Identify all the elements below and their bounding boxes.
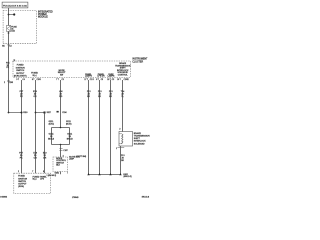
svg-text:2: 2 bbox=[119, 128, 120, 130]
lower left module box (dashed) bbox=[14, 173, 51, 193]
svg-text:8: 8 bbox=[43, 171, 44, 173]
wire 1 from cluster bbox=[21, 80, 23, 173]
pin label at IPM exit bbox=[2, 45, 11, 47]
svg-text:8W-40-8: 8W-40-8 bbox=[142, 197, 149, 199]
svg-text:9 T: 9 T bbox=[16, 79, 19, 81]
lower box interior label col2 bbox=[33, 176, 40, 180]
instrument cluster label bbox=[132, 59, 148, 64]
BTSI bottom pin connector bbox=[120, 146, 122, 175]
svg-text:C4: C4 bbox=[22, 79, 24, 81]
wire 3 T split bbox=[52, 127, 70, 129]
svg-text:OUTPUT: OUTPUT bbox=[16, 73, 25, 75]
svg-text:17904B: 17904B bbox=[72, 197, 79, 199]
svg-text:MODULE: MODULE bbox=[38, 17, 48, 19]
svg-text:OR: OR bbox=[33, 96, 37, 98]
box right label bbox=[69, 156, 80, 160]
connector C205 on fuse wire bbox=[4, 81, 13, 84]
svg-text:IGNITION: IGNITION bbox=[16, 67, 25, 69]
svg-text:S110: S110 bbox=[23, 112, 27, 114]
node ground bus junction wire5 bbox=[98, 173, 100, 175]
wire to connector bbox=[60, 145, 62, 158]
headlamp leveling box (dashed) bbox=[53, 157, 68, 172]
integrated power module label bbox=[38, 10, 53, 18]
svg-text:OR: OR bbox=[43, 157, 47, 159]
wire 7 from cluster bbox=[122, 80, 124, 132]
svg-text:M1: M1 bbox=[2, 45, 4, 47]
wire 2b branch from splice bbox=[44, 113, 46, 174]
svg-text:7: 7 bbox=[32, 171, 33, 173]
svg-text:C107: C107 bbox=[63, 150, 67, 152]
svg-text:(RUN): (RUN) bbox=[18, 186, 24, 188]
svg-text:PK: PK bbox=[20, 157, 23, 159]
splice S327 bbox=[35, 112, 37, 114]
branch right bbox=[69, 128, 71, 145]
split label left bbox=[49, 121, 55, 125]
svg-text:(EXC): (EXC) bbox=[49, 123, 55, 125]
cluster pin function label col8 bbox=[115, 62, 131, 77]
wire 3 label bbox=[59, 91, 63, 98]
svg-text:OR: OR bbox=[34, 157, 38, 159]
node stub end dot bbox=[13, 13, 15, 15]
svg-text:8 T: 8 T bbox=[32, 79, 35, 81]
fuse bottom terminal bbox=[8, 32, 10, 34]
svg-text:BK/LB: BK/LB bbox=[67, 138, 74, 140]
instrument cluster box (dashed) bbox=[13, 61, 131, 77]
cluster pin function label col5 bbox=[97, 73, 105, 78]
integrated power module box (dashed) bbox=[3, 10, 36, 43]
svg-text:2: 2 bbox=[4, 82, 5, 84]
svg-text:FUSED: FUSED bbox=[17, 65, 24, 67]
svg-text:CONTROL: CONTROL bbox=[118, 75, 129, 77]
cluster pin function label col1 bbox=[14, 65, 27, 78]
svg-text:1: 1 bbox=[116, 148, 117, 150]
wire 7 label bbox=[121, 91, 125, 98]
branch rejoin bbox=[52, 144, 70, 146]
branch left label bbox=[48, 134, 55, 141]
svg-text:C3: C3 bbox=[62, 79, 64, 81]
svg-text:PK: PK bbox=[6, 67, 9, 69]
svg-text:B(+): B(+) bbox=[33, 75, 37, 77]
wire 3 from cluster bbox=[60, 80, 62, 128]
svg-text:C2 (P7 884): C2 (P7 884) bbox=[76, 156, 86, 158]
lower box interior label col3 bbox=[40, 175, 47, 180]
wire 2 from cluster bbox=[35, 80, 37, 173]
cluster pin function label col6 bbox=[108, 73, 115, 78]
wire 1 label bbox=[20, 91, 24, 98]
BTSI solenoid box bbox=[119, 132, 133, 147]
svg-text:3: 3 bbox=[63, 156, 64, 158]
split label right bbox=[66, 121, 72, 125]
svg-text:7 T: 7 T bbox=[56, 79, 59, 81]
svg-text:C2: C2 bbox=[9, 45, 11, 47]
svg-text:BK/LB: BK/LB bbox=[48, 138, 55, 140]
fuse F31 value label bbox=[11, 26, 17, 32]
wire label F35 bbox=[6, 62, 10, 69]
svg-text:BK: BK bbox=[87, 96, 90, 98]
fuse F31 bbox=[7, 25, 11, 31]
ground bus bbox=[89, 174, 121, 176]
wire 3 arrow feed bbox=[57, 111, 59, 113]
svg-text:FUS.BLOCK 0.04 0.0A: FUS.BLOCK 0.04 0.0A bbox=[3, 4, 27, 7]
svg-text:LPS DR: LPS DR bbox=[97, 76, 105, 78]
svg-text:B(+): B(+) bbox=[33, 179, 37, 181]
svg-text:2: 2 bbox=[18, 171, 19, 173]
svg-text:YL: YL bbox=[121, 96, 124, 98]
svg-text:SOLENOID: SOLENOID bbox=[134, 143, 145, 145]
svg-text:(8W-15-2): (8W-15-2) bbox=[124, 176, 132, 178]
svg-text:BK: BK bbox=[121, 160, 124, 162]
svg-text:LAMPS: LAMPS bbox=[108, 75, 115, 78]
svg-text:(BUX): (BUX) bbox=[66, 123, 72, 125]
svg-text:1 (8W-40-2): 1 (8W-40-2) bbox=[47, 175, 57, 177]
branch right label bbox=[67, 134, 74, 141]
wire from fuse down to splice bbox=[8, 32, 10, 113]
wire 2b label bbox=[43, 153, 48, 160]
wire 1 lower label bbox=[19, 153, 23, 160]
node ground bus junction wire7 bbox=[119, 173, 121, 175]
svg-text:BK: BK bbox=[98, 96, 101, 98]
wire 2 lower label bbox=[33, 153, 38, 160]
BTSI ground wire label bbox=[121, 155, 125, 162]
svg-text:0 84903: 0 84903 bbox=[0, 197, 7, 199]
corner continuation arrow bbox=[12, 60, 15, 63]
svg-text:C134: C134 bbox=[62, 112, 66, 114]
wire 4 from cluster bbox=[88, 80, 90, 175]
svg-text:PK: PK bbox=[20, 96, 23, 98]
wire 6 label bbox=[109, 91, 113, 98]
solenoid coil bbox=[122, 134, 123, 144]
wire 2 label bbox=[33, 91, 38, 98]
svg-text:INTEGRATED: INTEGRATED bbox=[38, 10, 53, 13]
svg-text:C205: C205 bbox=[37, 79, 41, 81]
center box corner pin tick bbox=[66, 172, 68, 174]
svg-text:10 T: 10 T bbox=[117, 79, 121, 81]
pin labels above lower box bbox=[18, 171, 44, 173]
pin labels under cluster box bbox=[16, 79, 128, 81]
svg-text:SW: SW bbox=[60, 75, 63, 77]
wire from fuse block to fuse F31 bbox=[8, 8, 10, 25]
svg-text:BRAKE: BRAKE bbox=[134, 132, 142, 135]
wire 5 label bbox=[98, 91, 102, 98]
branch left bbox=[51, 128, 53, 145]
svg-text:TRANSMISSION: TRANSMISSION bbox=[134, 135, 150, 138]
center box bottom ground stub bbox=[60, 172, 62, 175]
box interior label bbox=[56, 158, 67, 167]
wire stub to other circuits bbox=[9, 14, 15, 16]
svg-text:RD: RD bbox=[59, 96, 63, 98]
svg-text:C205: C205 bbox=[9, 82, 13, 84]
wire 5 from cluster bbox=[99, 80, 101, 175]
wire 4 label bbox=[87, 91, 91, 98]
cluster pin function label col2 bbox=[31, 73, 38, 77]
lower box interior label col1 bbox=[18, 176, 27, 188]
svg-text:C3: C3 bbox=[112, 79, 114, 81]
svg-text:LAMPS: LAMPS bbox=[85, 75, 92, 78]
svg-text:C3: C3 bbox=[101, 79, 103, 81]
node ground bus junction wire4 bbox=[87, 173, 89, 175]
fuse block header box bbox=[2, 2, 28, 8]
wire 6 from cluster bbox=[110, 80, 112, 175]
svg-text:CLUSTER: CLUSTER bbox=[132, 61, 143, 63]
svg-text:C1 D: C1 D bbox=[90, 79, 95, 81]
svg-text:10A: 10A bbox=[11, 30, 15, 33]
cluster pin function label col4 bbox=[85, 73, 92, 78]
svg-text:2: 2 bbox=[128, 79, 129, 81]
svg-text:S327: S327 bbox=[47, 112, 51, 114]
svg-text:SWITCH: SWITCH bbox=[16, 70, 24, 72]
svg-text:BK: BK bbox=[109, 96, 112, 98]
svg-text:BLK: BLK bbox=[56, 165, 60, 167]
svg-text:LAMP: LAMP bbox=[69, 157, 75, 160]
node junction dot bbox=[8, 14, 10, 16]
BTSI label bbox=[134, 132, 150, 145]
svg-text:(RUN-START): (RUN-START) bbox=[14, 75, 27, 78]
inline connector C107 bbox=[59, 149, 62, 151]
svg-text:LPS: LPS bbox=[40, 179, 44, 181]
node ground bus junction wire6 bbox=[109, 173, 111, 175]
splice S110 bbox=[8, 112, 10, 114]
cluster pin function label col3 bbox=[58, 70, 67, 77]
